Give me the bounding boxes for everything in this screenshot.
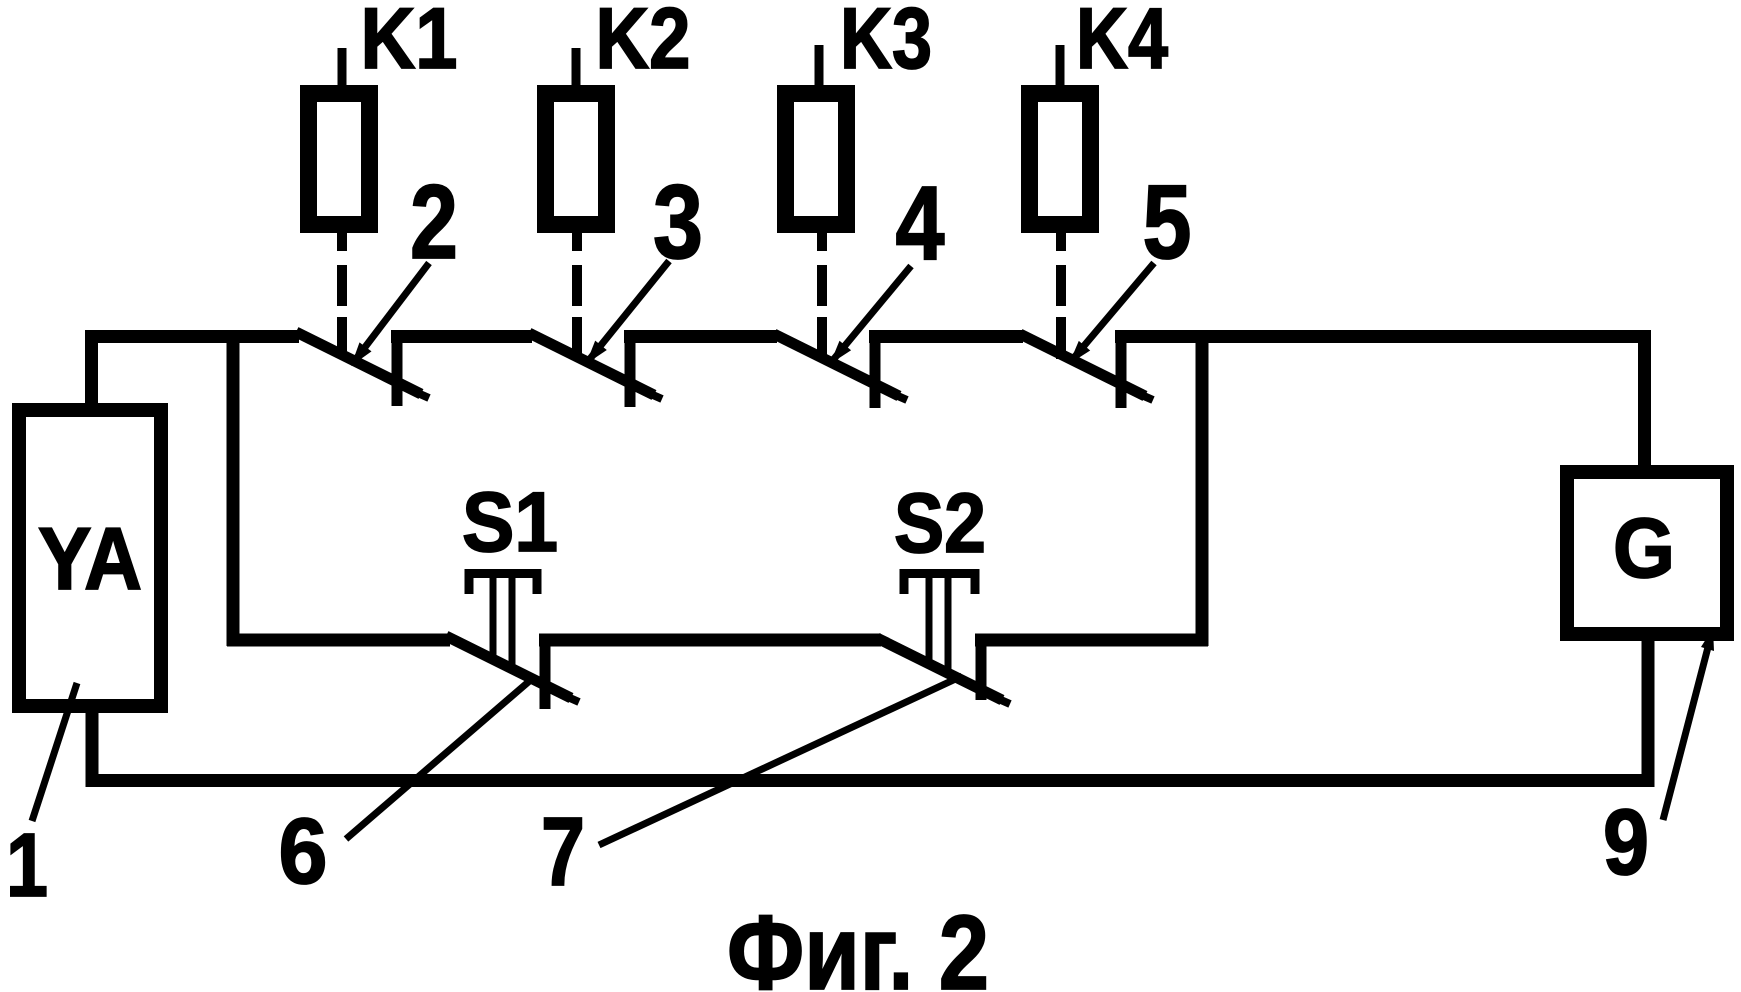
arrowhead of leader 5 [1069,341,1090,364]
button S2 stem right line [945,578,952,671]
svg-text:5: 5 [1143,164,1192,281]
svg-text:2: 2 [410,164,458,281]
wire button row segment (S1 to S2) [539,634,881,647]
contact 3 fixed terminal stub [625,333,636,407]
leader line for 9 [1663,628,1713,820]
leader line for 4 [833,266,911,360]
mechanical link (dashed) K3 to contact 4 [817,230,827,359]
svg-text:4: 4 [896,165,945,282]
arrowhead of leader 3 [586,341,607,364]
pin lead above K4 [1056,45,1065,92]
button S2 blade tip tail [985,693,1010,704]
button S1 blade tip tail [554,691,579,702]
contact 5 moving blade [1020,334,1145,396]
arrowhead of leader 4 [830,341,851,364]
button S1 fixed terminal stub [540,636,551,709]
svg-text:7: 7 [541,797,585,906]
pin lead above K2 [572,48,581,92]
wire stub from YA bottom to bottom bus [86,713,99,787]
leader line for 7 [599,676,962,845]
contact 2 blade tip tail [404,387,429,398]
contact 5 fixed terminal stub [1116,334,1127,408]
pin lead above K3 [815,45,824,92]
contact 2 fixed terminal stub [392,332,403,406]
svg-text:K2: K2 [596,0,691,87]
wire left vertical from top bus down to YA [85,330,98,410]
leader line for 6 [346,678,533,839]
button S1 stem left line [490,578,497,660]
wire button row segment (branch to S1) [227,634,450,647]
button S2 cap [904,574,975,595]
svg-text:G: G [1613,501,1675,595]
wire right vertical from top bus corner down to G [1638,330,1651,470]
svg-text:9: 9 [1603,790,1649,894]
svg-text:K3: K3 [840,0,932,87]
leader line for 2 [356,263,429,359]
svg-text:1: 1 [6,816,48,916]
contact 4 fixed terminal stub [870,334,881,408]
svg-text:YA: YA [38,509,142,608]
relay coil K4 [1030,94,1091,225]
arrowhead of leader 2 [351,342,372,366]
relay coil K2 [546,94,607,225]
contact 4 blade tip tail [882,389,907,400]
contact 5 blade tip tail [1128,389,1153,400]
button S2 contact blade [877,638,1002,700]
wire vertical branch to button row [227,337,240,647]
mechanical link (dashed) K4 to contact 5 [1056,230,1066,359]
contact 2 moving blade [296,332,421,394]
leader line for 5 [1072,263,1154,360]
wire top bus segment C (contact 3 to contact 4) [624,330,777,343]
leader line for 1 [32,683,77,821]
mechanical link (dashed) K2 to contact 3 [572,230,582,358]
wire stub from G bottom to bottom bus [1642,634,1655,787]
svg-text:K1: K1 [361,0,458,87]
svg-text:6: 6 [279,799,328,903]
button S1 cap [469,574,537,595]
wire button row segment (S2 to right vertical) [975,634,1208,647]
relay coil K1 [309,94,370,225]
svg-text:Фиг. 2: Фиг. 2 [727,894,989,992]
contact 4 moving blade [774,334,899,396]
arrowhead of leader 9 [1701,628,1714,651]
pin lead above K1 [338,48,347,92]
button S1 contact blade [446,636,571,698]
svg-text:S2: S2 [894,476,986,570]
wire top bus segment B (contact 2 to contact 3) [391,330,532,343]
wire top bus segment A (left end to contact 2) [85,330,299,343]
button S1 stem right line [509,578,516,670]
svg-text:S1: S1 [462,475,558,569]
relay coil K3 [786,94,847,225]
generator G box [1567,472,1727,634]
button S2 stem left line [926,578,933,662]
wire top bus segment D (contact 4 to contact 5) [869,330,1023,343]
button S2 fixed terminal stub [976,638,987,700]
contact 3 blade tip tail [637,388,662,399]
svg-text:3: 3 [653,164,703,281]
wire bottom bus [86,774,1655,787]
leader line for 3 [589,261,669,360]
wire right vertical from top bus down to button row [1196,337,1209,647]
contact 3 moving blade [529,333,654,395]
mechanical link (dashed) K1 to contact 2 [337,230,347,357]
svg-text:K4: K4 [1076,0,1168,87]
wire top bus segment E (contact 5 to right corner) [1115,330,1651,343]
electromagnet YA box [19,410,161,706]
